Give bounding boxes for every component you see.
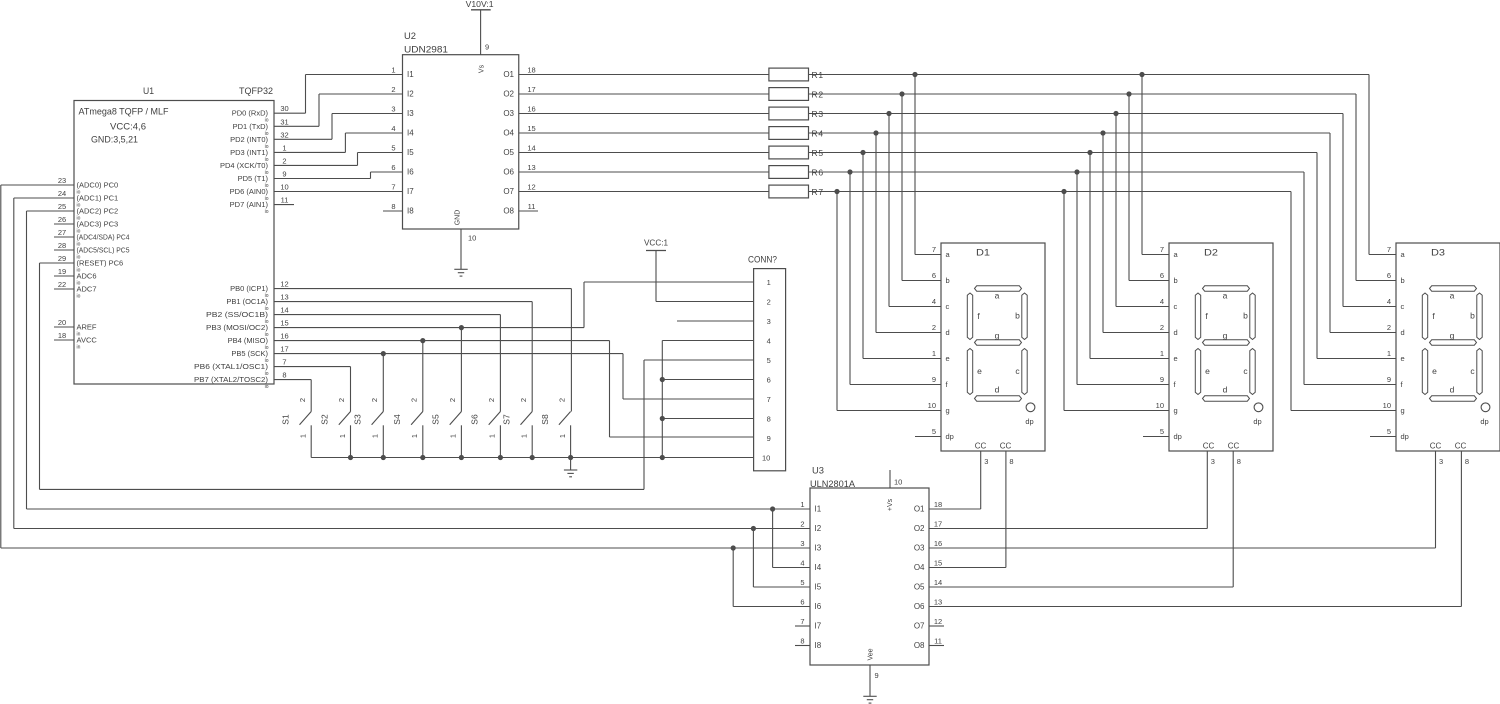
svg-text:13: 13 — [280, 293, 288, 302]
svg-text:1: 1 — [767, 278, 771, 287]
svg-text:d: d — [1223, 385, 1228, 395]
svg-text:14: 14 — [527, 144, 535, 153]
svg-text:5: 5 — [767, 356, 771, 365]
svg-text:CC: CC — [975, 442, 987, 451]
svg-text:g: g — [946, 406, 950, 415]
svg-text:4: 4 — [391, 124, 395, 133]
svg-text:S1: S1 — [280, 414, 290, 425]
svg-text:1: 1 — [282, 143, 286, 152]
svg-text:3: 3 — [800, 539, 804, 548]
svg-text:2: 2 — [519, 398, 528, 402]
svg-text:5: 5 — [1160, 427, 1164, 436]
svg-text:b: b — [1174, 276, 1178, 285]
svg-text:31: 31 — [280, 117, 288, 126]
svg-text:O6: O6 — [914, 602, 925, 611]
svg-text:O3: O3 — [914, 544, 925, 553]
svg-text:R6: R6 — [812, 168, 824, 178]
svg-text:ADC7: ADC7 — [77, 285, 97, 294]
svg-text:2: 2 — [337, 398, 346, 402]
svg-text:12: 12 — [280, 280, 288, 289]
svg-text:O5: O5 — [503, 148, 514, 157]
svg-text:R4: R4 — [812, 129, 824, 139]
svg-text:5: 5 — [1387, 427, 1391, 436]
svg-text:4: 4 — [800, 559, 804, 568]
svg-text:4: 4 — [932, 297, 936, 306]
svg-text:PD4 (XCK/T0): PD4 (XCK/T0) — [220, 161, 268, 170]
svg-text:14: 14 — [934, 578, 942, 587]
svg-text:6: 6 — [1387, 271, 1391, 280]
svg-text:10: 10 — [894, 478, 902, 487]
svg-text:io: io — [265, 384, 269, 390]
svg-text:18: 18 — [934, 500, 942, 509]
svg-text:d: d — [1174, 328, 1178, 337]
svg-text:9: 9 — [1387, 375, 1391, 384]
svg-text:1: 1 — [800, 500, 804, 509]
svg-text:(ADC1) PC1: (ADC1) PC1 — [77, 194, 119, 203]
svg-text:15: 15 — [280, 319, 288, 328]
svg-text:4: 4 — [1387, 297, 1391, 306]
svg-text:I3: I3 — [407, 109, 414, 118]
svg-text:O4: O4 — [503, 129, 514, 138]
svg-text:I1: I1 — [815, 505, 822, 514]
svg-text:c: c — [1401, 302, 1405, 311]
svg-text:(ADC0) PC0: (ADC0) PC0 — [77, 181, 119, 190]
svg-text:U3: U3 — [812, 466, 824, 477]
svg-text:R2: R2 — [812, 90, 824, 100]
svg-text:16: 16 — [934, 539, 942, 548]
svg-text:PD6 (AIN0): PD6 (AIN0) — [230, 187, 269, 196]
svg-text:O2: O2 — [914, 524, 925, 533]
svg-text:Vs: Vs — [479, 64, 486, 73]
svg-text:VCC:1: VCC:1 — [644, 239, 669, 248]
svg-text:AREF: AREF — [77, 323, 97, 332]
svg-text:D1: D1 — [976, 248, 990, 259]
svg-text:PB1 (OC1A): PB1 (OC1A) — [226, 297, 268, 306]
svg-text:10: 10 — [762, 454, 770, 463]
svg-text:10: 10 — [1383, 401, 1391, 410]
svg-text:10: 10 — [468, 234, 476, 243]
svg-text:3: 3 — [391, 105, 395, 114]
svg-text:I7: I7 — [815, 622, 822, 631]
svg-text:29: 29 — [58, 254, 66, 263]
svg-text:O7: O7 — [503, 187, 514, 196]
svg-text:S2: S2 — [320, 414, 330, 425]
svg-text:S7: S7 — [501, 414, 511, 425]
svg-text:20: 20 — [58, 318, 66, 327]
svg-text:PD5 (T1): PD5 (T1) — [238, 174, 269, 183]
svg-text:PD2 (INT0): PD2 (INT0) — [230, 135, 268, 144]
svg-text:Vee: Vee — [868, 648, 875, 660]
svg-text:CC: CC — [1203, 442, 1215, 451]
svg-text:7: 7 — [767, 395, 771, 404]
svg-text:PD1 (TxD): PD1 (TxD) — [233, 122, 269, 131]
svg-text:e: e — [1401, 354, 1405, 363]
svg-text:I4: I4 — [815, 563, 822, 572]
svg-text:S5: S5 — [431, 414, 441, 425]
svg-text:I6: I6 — [815, 602, 822, 611]
svg-text:I5: I5 — [407, 148, 414, 157]
svg-text:c: c — [1174, 302, 1178, 311]
svg-text:S6: S6 — [470, 414, 480, 425]
svg-text:PB3 (MOSI/OC2): PB3 (MOSI/OC2) — [206, 323, 269, 332]
svg-text:1: 1 — [932, 349, 936, 358]
svg-text:1: 1 — [371, 434, 380, 438]
svg-text:3: 3 — [1439, 457, 1443, 466]
svg-text:O1: O1 — [503, 70, 514, 79]
svg-text:17: 17 — [527, 85, 535, 94]
svg-text:28: 28 — [58, 241, 66, 250]
svg-text:16: 16 — [280, 332, 288, 341]
svg-text:CC: CC — [1228, 442, 1240, 451]
svg-text:O3: O3 — [503, 109, 514, 118]
svg-text:8: 8 — [1009, 457, 1013, 466]
svg-text:CC: CC — [1455, 442, 1467, 451]
svg-text:18: 18 — [527, 66, 535, 75]
svg-text:d: d — [1401, 328, 1405, 337]
svg-text:30: 30 — [280, 104, 288, 113]
svg-text:9: 9 — [1160, 375, 1164, 384]
svg-text:9: 9 — [932, 375, 936, 384]
svg-text:ULN2801A: ULN2801A — [810, 479, 856, 490]
svg-text:R3: R3 — [812, 109, 824, 119]
svg-text:2: 2 — [391, 85, 395, 94]
svg-text:PB6 (XTAL1/OSC1): PB6 (XTAL1/OSC1) — [194, 362, 269, 371]
svg-text:VCC:4,6: VCC:4,6 — [110, 122, 146, 133]
svg-text:6: 6 — [800, 598, 804, 607]
svg-text:I6: I6 — [407, 168, 414, 177]
svg-text:3: 3 — [984, 457, 988, 466]
svg-text:b: b — [1470, 311, 1475, 321]
svg-text:GND:3,5,21: GND:3,5,21 — [91, 135, 138, 146]
svg-text:6: 6 — [391, 163, 395, 172]
svg-text:I3: I3 — [815, 544, 822, 553]
svg-text:9: 9 — [485, 43, 489, 52]
svg-text:b: b — [946, 276, 950, 285]
svg-text:3: 3 — [767, 317, 771, 326]
svg-text:(ADC5/SCL) PC5: (ADC5/SCL) PC5 — [77, 246, 130, 255]
svg-text:I2: I2 — [407, 90, 414, 99]
svg-text:O4: O4 — [914, 563, 925, 572]
svg-text:10: 10 — [280, 183, 288, 192]
svg-text:7: 7 — [1387, 245, 1391, 254]
svg-text:4: 4 — [767, 337, 771, 346]
svg-text:2: 2 — [282, 156, 286, 165]
svg-text:8: 8 — [282, 371, 286, 380]
svg-text:e: e — [977, 366, 982, 376]
svg-text:8: 8 — [1465, 457, 1469, 466]
svg-text:6: 6 — [1160, 271, 1164, 280]
svg-text:26: 26 — [58, 215, 66, 224]
svg-text:U2: U2 — [404, 31, 416, 42]
svg-text:2: 2 — [1160, 323, 1164, 332]
svg-text:17: 17 — [934, 520, 942, 529]
svg-text:I5: I5 — [815, 583, 822, 592]
svg-text:PD7 (AIN1): PD7 (AIN1) — [230, 200, 269, 209]
svg-text:PD0 (RxD): PD0 (RxD) — [232, 109, 269, 118]
svg-text:2: 2 — [932, 323, 936, 332]
svg-text:dp: dp — [1480, 417, 1488, 426]
svg-text:10: 10 — [928, 401, 936, 410]
svg-text:b: b — [1401, 276, 1405, 285]
svg-text:24: 24 — [58, 189, 66, 198]
svg-text:R7: R7 — [812, 187, 824, 197]
svg-text:dp: dp — [946, 432, 954, 441]
svg-text:e: e — [1205, 366, 1210, 376]
svg-text:12: 12 — [527, 183, 535, 192]
svg-text:e: e — [946, 354, 950, 363]
svg-text:8: 8 — [1237, 457, 1241, 466]
svg-text:c: c — [946, 302, 950, 311]
svg-text:27: 27 — [58, 228, 66, 237]
svg-text:5: 5 — [800, 578, 804, 587]
svg-text:12: 12 — [934, 617, 942, 626]
svg-text:11: 11 — [281, 196, 289, 205]
svg-text:ATmega8 TQFP / MLF: ATmega8 TQFP / MLF — [79, 107, 169, 118]
svg-text:13: 13 — [934, 598, 942, 607]
svg-text:19: 19 — [58, 267, 66, 276]
svg-text:V10V:1: V10V:1 — [466, 0, 495, 9]
svg-text:D3: D3 — [1431, 248, 1445, 259]
svg-text:(ADC3) PC3: (ADC3) PC3 — [77, 220, 119, 229]
svg-text:(ADC4/SDA) PC4: (ADC4/SDA) PC4 — [77, 233, 130, 242]
svg-text:15: 15 — [934, 559, 942, 568]
svg-text:1: 1 — [449, 434, 458, 438]
svg-text:I7: I7 — [407, 187, 414, 196]
svg-text:8: 8 — [767, 415, 771, 424]
svg-text:1: 1 — [1160, 349, 1164, 358]
svg-text:1: 1 — [299, 434, 308, 438]
svg-text:R5: R5 — [812, 148, 824, 158]
svg-text:PB0 (ICP1): PB0 (ICP1) — [230, 284, 268, 293]
svg-text:TQFP32: TQFP32 — [239, 86, 273, 97]
svg-text:CONN?: CONN? — [748, 255, 777, 265]
svg-text:17: 17 — [280, 345, 288, 354]
svg-text:1: 1 — [338, 434, 347, 438]
svg-text:1: 1 — [391, 66, 395, 75]
svg-text:O6: O6 — [503, 168, 514, 177]
svg-text:S4: S4 — [392, 414, 402, 425]
svg-text:e: e — [1174, 354, 1178, 363]
svg-text:g: g — [1174, 406, 1178, 415]
svg-text:2: 2 — [1387, 323, 1391, 332]
svg-text:g: g — [1450, 331, 1455, 341]
svg-text:7: 7 — [1160, 245, 1164, 254]
svg-text:CC: CC — [1430, 442, 1442, 451]
svg-text:b: b — [1243, 311, 1248, 321]
svg-text:+Vs: +Vs — [887, 498, 894, 511]
svg-text:D2: D2 — [1204, 248, 1218, 259]
svg-text:b: b — [1015, 311, 1020, 321]
svg-text:I2: I2 — [815, 524, 822, 533]
svg-text:8: 8 — [391, 202, 395, 211]
svg-text:a: a — [1223, 291, 1228, 301]
svg-text:13: 13 — [527, 163, 535, 172]
svg-text:in: in — [77, 345, 81, 351]
svg-text:3: 3 — [1211, 457, 1215, 466]
svg-text:a: a — [1450, 291, 1455, 301]
svg-text:UDN2981: UDN2981 — [404, 45, 448, 56]
svg-text:io: io — [265, 209, 269, 215]
svg-text:11: 11 — [934, 637, 942, 646]
svg-text:7: 7 — [800, 617, 804, 626]
svg-text:I8: I8 — [407, 207, 414, 216]
svg-text:GND: GND — [455, 210, 462, 226]
svg-text:(RESET) PC6: (RESET) PC6 — [77, 259, 124, 268]
svg-text:18: 18 — [58, 331, 66, 340]
svg-text:16: 16 — [527, 105, 535, 114]
svg-text:dp: dp — [1025, 417, 1033, 426]
svg-text:9: 9 — [875, 671, 879, 680]
svg-text:(ADC2) PC2: (ADC2) PC2 — [77, 207, 119, 216]
svg-text:O2: O2 — [503, 90, 514, 99]
svg-text:O8: O8 — [503, 207, 514, 216]
svg-text:U1: U1 — [143, 86, 154, 97]
svg-text:4: 4 — [1160, 297, 1164, 306]
svg-text:dp: dp — [1401, 432, 1409, 441]
svg-text:25: 25 — [58, 202, 66, 211]
svg-text:e: e — [1432, 366, 1437, 376]
svg-text:7: 7 — [391, 183, 395, 192]
svg-text:d: d — [1450, 385, 1455, 395]
svg-text:O8: O8 — [914, 641, 925, 650]
svg-text:a: a — [995, 291, 1000, 301]
svg-text:9: 9 — [282, 170, 286, 179]
svg-text:2: 2 — [800, 520, 804, 529]
svg-text:g: g — [995, 331, 1000, 341]
svg-text:AVCC: AVCC — [77, 336, 98, 345]
svg-text:I4: I4 — [407, 129, 414, 138]
svg-text:1: 1 — [410, 434, 419, 438]
svg-text:g: g — [1401, 406, 1405, 415]
svg-text:PD3 (INT1): PD3 (INT1) — [230, 148, 268, 157]
svg-text:2: 2 — [448, 398, 457, 402]
svg-text:PB5 (SCK): PB5 (SCK) — [231, 349, 268, 358]
svg-text:32: 32 — [280, 130, 288, 139]
svg-text:PB2 (SS/OC1B): PB2 (SS/OC1B) — [206, 310, 269, 319]
svg-text:9: 9 — [767, 434, 771, 443]
svg-text:2: 2 — [298, 398, 307, 402]
svg-text:I8: I8 — [815, 641, 822, 650]
svg-text:6: 6 — [767, 376, 771, 385]
svg-text:2: 2 — [487, 398, 496, 402]
svg-text:PB7 (XTAL2/TOSC2): PB7 (XTAL2/TOSC2) — [194, 375, 269, 384]
svg-text:6: 6 — [932, 271, 936, 280]
svg-text:2: 2 — [557, 398, 566, 402]
svg-text:1: 1 — [1387, 349, 1391, 358]
svg-text:R1: R1 — [812, 70, 824, 80]
svg-text:1: 1 — [558, 434, 567, 438]
svg-text:22: 22 — [58, 280, 66, 289]
svg-text:15: 15 — [527, 124, 535, 133]
svg-text:5: 5 — [932, 427, 936, 436]
svg-text:7: 7 — [282, 358, 286, 367]
svg-text:ADC6: ADC6 — [77, 272, 97, 281]
svg-text:io: io — [77, 294, 81, 300]
svg-text:dp: dp — [1253, 417, 1261, 426]
svg-text:g: g — [1223, 331, 1228, 341]
svg-text:dp: dp — [1174, 432, 1182, 441]
svg-text:23: 23 — [58, 176, 66, 185]
svg-text:O5: O5 — [914, 583, 925, 592]
svg-text:I1: I1 — [407, 70, 414, 79]
svg-text:S3: S3 — [353, 414, 363, 425]
svg-text:11: 11 — [528, 202, 536, 211]
svg-text:8: 8 — [800, 637, 804, 646]
svg-text:14: 14 — [280, 306, 288, 315]
svg-text:7: 7 — [932, 245, 936, 254]
svg-text:2: 2 — [370, 398, 379, 402]
svg-text:PB4 (MISO): PB4 (MISO) — [228, 336, 269, 345]
svg-text:10: 10 — [1156, 401, 1164, 410]
svg-text:d: d — [995, 385, 1000, 395]
svg-text:2: 2 — [767, 298, 771, 307]
svg-text:O1: O1 — [914, 505, 925, 514]
svg-text:CC: CC — [1000, 442, 1012, 451]
svg-text:d: d — [946, 328, 950, 337]
svg-text:5: 5 — [391, 144, 395, 153]
svg-text:1: 1 — [488, 434, 497, 438]
svg-text:S8: S8 — [540, 414, 550, 425]
svg-text:2: 2 — [410, 398, 419, 402]
svg-text:O7: O7 — [914, 622, 925, 631]
svg-text:1: 1 — [520, 434, 529, 438]
